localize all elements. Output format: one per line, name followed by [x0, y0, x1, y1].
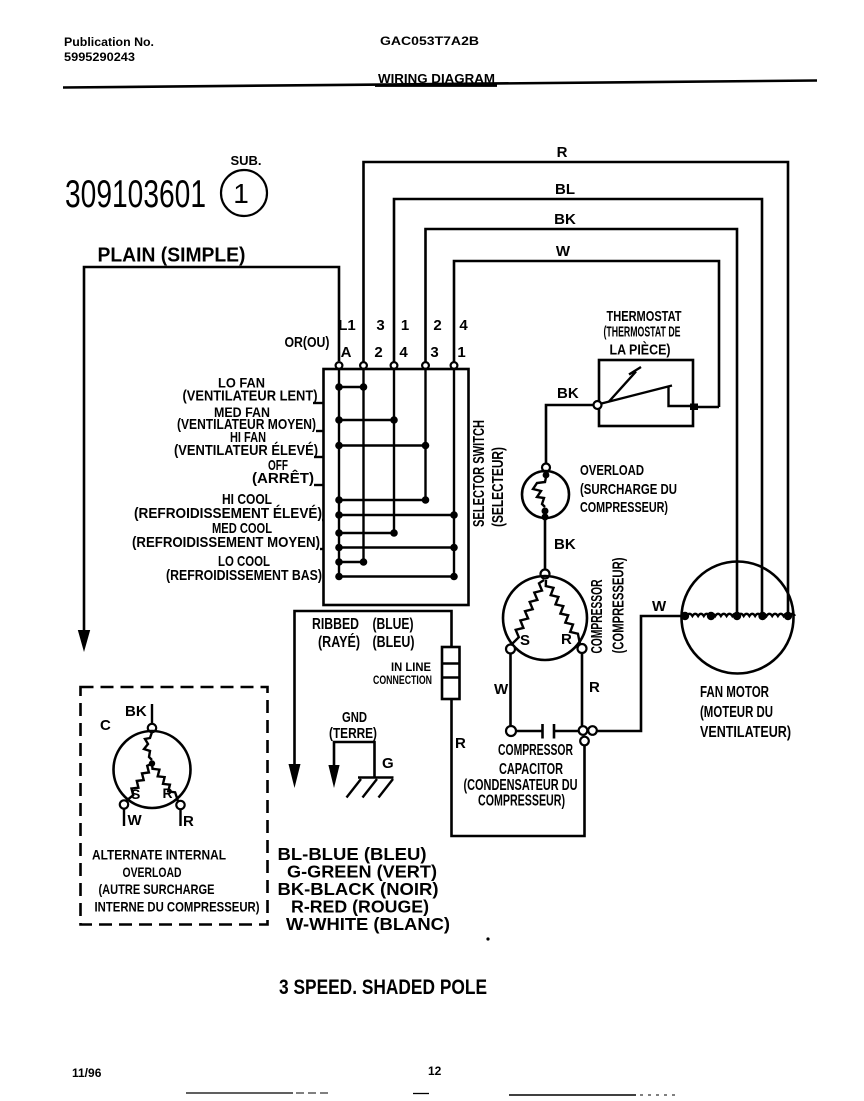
svg-text:W-WHITE (BLANC): W-WHITE (BLANC): [286, 914, 450, 934]
contact row MED FAN A-4: [335, 416, 398, 424]
wire overload to compressor: [544, 519, 547, 569]
line cord arrow GND: [328, 765, 339, 788]
sub revision circle 1: [221, 170, 267, 216]
alt overload center junction dot: [149, 760, 155, 766]
svg-text:OVERLOAD: OVERLOAD: [580, 462, 644, 479]
svg-text:COMPRESSOR: COMPRESSOR: [589, 580, 606, 654]
alt motor terminal W: [120, 800, 128, 808]
svg-text:4: 4: [399, 344, 408, 361]
wire L1 line cord to selector terminal A: [84, 267, 339, 632]
selector switch terminal 4 circle: [391, 362, 398, 369]
alt motor start winding: [126, 764, 152, 802]
wire R capacitor junction to in-line connection: [452, 699, 585, 836]
fan motor winding chord: [681, 614, 795, 616]
svg-text:R: R: [183, 813, 194, 830]
svg-text:(CONDENSATEUR DU: (CONDENSATEUR DU: [464, 777, 578, 794]
svg-text:COMPRESSEUR): COMPRESSEUR): [478, 793, 565, 810]
selector switch column 4: [393, 369, 395, 533]
selector switch column 1: [453, 369, 455, 577]
compressor capacitor label: [464, 742, 578, 810]
alt overload motor circle: [114, 731, 191, 808]
svg-text:ALTERNATE INTERNAL: ALTERNATE INTERNAL: [92, 847, 226, 863]
alt overload top terminal: [148, 724, 156, 732]
contact row HI COOL A-3: [335, 496, 429, 504]
svg-text:R: R: [589, 679, 600, 696]
overload heater zigzag: [533, 477, 546, 507]
svg-text:(BLUE): (BLUE): [373, 616, 414, 633]
compressor start winding: [512, 580, 544, 644]
svg-text:RIBBED: RIBBED: [312, 616, 359, 633]
svg-text:W: W: [128, 812, 143, 829]
svg-text:G: G: [382, 755, 394, 772]
capacitor C1: [516, 724, 579, 739]
legend wire colors: [278, 844, 451, 934]
svg-text:(THERMOSTAT DE: (THERMOSTAT DE: [604, 324, 681, 341]
wire BL from terminal 4 to fan motor: [394, 199, 762, 616]
contact row HI FAN A-3: [335, 442, 429, 450]
svg-text:L1: L1: [338, 317, 356, 334]
in-line connection label: [373, 662, 432, 687]
in-line connection J1: [442, 647, 460, 699]
capacitor junction terminals: [579, 726, 597, 745]
svg-text:(REFROIDISSEMENT BAS): (REFROIDISSEMENT BAS): [166, 567, 322, 584]
svg-text:C: C: [100, 717, 111, 734]
selector switch terminal 1 circle: [451, 362, 458, 369]
svg-text:BL: BL: [555, 181, 575, 198]
svg-text:LA PIÈCE): LA PIÈCE): [610, 342, 671, 359]
overload bottom dots: [542, 508, 549, 521]
thermostat box: [599, 360, 693, 426]
contact row LO COOL A-2: [335, 558, 367, 566]
thermostat left terminal: [594, 401, 602, 409]
wire BK from terminal 3 to fan motor: [426, 229, 738, 616]
compressor label vertical: [589, 558, 628, 654]
svg-text:SELECTOR SWITCH: SELECTOR SWITCH: [471, 420, 488, 527]
svg-text:1: 1: [233, 178, 249, 209]
selector switch terminal A circle: [336, 362, 343, 369]
overload junction dot: [543, 472, 550, 479]
svg-text:CONNECTION: CONNECTION: [373, 675, 432, 687]
ground label GND (TERRE): [329, 709, 377, 742]
svg-text:(AUTRE SURCHARGE: (AUTRE SURCHARGE: [99, 881, 215, 897]
svg-text:4: 4: [459, 317, 468, 334]
svg-text:IN LINE: IN LINE: [391, 662, 431, 674]
svg-text:CAPACITOR: CAPACITOR: [499, 761, 563, 778]
wire R in-line connection to line cord: [295, 611, 452, 766]
svg-text:PLAIN (SIMPLE): PLAIN (SIMPLE): [98, 245, 246, 267]
selector switch column A: [338, 369, 340, 577]
svg-text:COMPRESSOR: COMPRESSOR: [498, 742, 573, 759]
label MED FAN: [177, 404, 324, 433]
capacitor left terminal: [506, 726, 516, 736]
svg-text:BK: BK: [557, 385, 579, 402]
svg-text:OR(OU): OR(OU): [285, 334, 330, 351]
fan motor label: [700, 684, 791, 741]
selector switch box: [324, 369, 469, 605]
svg-text:1: 1: [401, 317, 409, 334]
svg-text:THERMOSTAT: THERMOSTAT: [607, 308, 682, 325]
alternate internal overload label: [92, 847, 260, 915]
wire R from terminal 2 to fan motor: [364, 162, 789, 616]
alternate internal overload dashed box: [81, 687, 268, 925]
svg-text:5995290243: 5995290243: [64, 52, 135, 64]
svg-text:GAC053T7A2B: GAC053T7A2B: [380, 34, 479, 48]
selector switch terminal 2 circle: [360, 362, 367, 369]
alt motor run winding: [152, 764, 178, 802]
label LO FAN: [183, 375, 324, 405]
wire R compressor R to capacitor junction: [581, 653, 584, 726]
compressor run winding: [546, 580, 580, 644]
svg-text:S: S: [131, 786, 140, 802]
alt motor stubs: [124, 809, 181, 826]
alt overload heater zigzag: [144, 732, 152, 760]
svg-text:FAN MOTOR: FAN MOTOR: [700, 684, 769, 701]
selector switch terminal 3 circle: [422, 362, 429, 369]
svg-text:BK: BK: [554, 211, 576, 228]
svg-text:R: R: [163, 785, 173, 801]
alt overload stub BK: [151, 704, 153, 724]
svg-text:(MOTEUR DU: (MOTEUR DU: [700, 704, 773, 721]
svg-text:Publication No.: Publication No.: [64, 37, 154, 49]
wire W from terminal 1 to thermostat: [454, 261, 719, 407]
svg-text:3: 3: [430, 344, 438, 361]
wire W capacitor junction to fan motor: [597, 616, 685, 731]
svg-text:(SURCHARGE DU: (SURCHARGE DU: [580, 481, 677, 498]
thermostat contact blade: [602, 386, 673, 404]
fan motor circle: [682, 562, 794, 674]
selector switch column 2: [362, 369, 364, 562]
svg-text:(REFROIDISSEMENT MOYEN): (REFROIDISSEMENT MOYEN): [132, 534, 320, 551]
contact row LO COOL A-1: [335, 573, 458, 581]
svg-text:R: R: [561, 631, 572, 648]
footer scan artifact lines: [186, 1093, 680, 1095]
svg-text:GND: GND: [342, 709, 367, 726]
label MED COOL: [132, 520, 324, 551]
contact row HI COOL A-1: [335, 511, 458, 519]
wire ground branch: [334, 742, 375, 777]
wire BK thermostat to overload: [546, 405, 594, 463]
svg-text:W: W: [494, 681, 509, 698]
thermostat right terminal: [690, 404, 698, 411]
svg-text:12: 12: [428, 1064, 442, 1078]
svg-text:W: W: [652, 598, 667, 615]
svg-text:SUB.: SUB.: [230, 153, 261, 168]
svg-text:(VENTILATEUR LENT): (VENTILATEUR LENT): [183, 388, 318, 405]
header rule: [63, 81, 817, 88]
svg-text:A: A: [341, 344, 352, 361]
label OFF: [252, 457, 324, 487]
compressor terminal R: [578, 644, 587, 653]
overload OL1 circle: [522, 471, 569, 518]
label SELECTOR SWITCH vertical: [471, 420, 507, 527]
svg-text:BK: BK: [554, 536, 576, 553]
svg-text:(ARRÊT): (ARRÊT): [252, 469, 314, 487]
svg-text:11/96: 11/96: [72, 1066, 102, 1080]
svg-text:(SELECTEUR): (SELECTEUR): [490, 447, 507, 527]
svg-text:VENTILATEUR): VENTILATEUR): [700, 724, 791, 741]
svg-text:(COMPRESSEUR): (COMPRESSEUR): [611, 558, 628, 654]
header publication number: [64, 37, 154, 64]
label LO COOL: [166, 553, 322, 584]
wire W compressor S to capacitor: [509, 654, 512, 727]
label HI COOL: [134, 491, 324, 522]
svg-text:R: R: [455, 735, 466, 752]
selector switch column 3: [424, 369, 426, 500]
svg-text:INTERNE DU COMPRESSEUR): INTERNE DU COMPRESSEUR): [95, 899, 260, 915]
line cord arrow R: [289, 764, 301, 788]
compressor top terminal: [541, 570, 550, 579]
svg-text:(BLEU): (BLEU): [373, 634, 415, 651]
contact row LO FAN A-2: [335, 383, 367, 391]
svg-text:(TERRE): (TERRE): [329, 725, 377, 742]
header title WIRING DIAGRAM: [375, 72, 497, 87]
svg-text:R: R: [557, 144, 568, 161]
svg-text:2: 2: [433, 317, 441, 334]
svg-text:(VENTILATEUR ÉLEVÉ): (VENTILATEUR ÉLEVÉ): [174, 442, 318, 459]
label HI FAN: [174, 429, 324, 459]
scan speck: [486, 937, 489, 940]
svg-text:(RAYÉ): (RAYÉ): [318, 634, 360, 651]
svg-text:W: W: [556, 243, 571, 260]
svg-text:309103601: 309103601: [65, 173, 206, 216]
thermostat label: [604, 308, 682, 359]
svg-text:S: S: [520, 632, 530, 649]
overload label: [580, 462, 677, 516]
contact row MED COOL A-4: [335, 529, 398, 537]
line cord arrow L1: [78, 630, 90, 652]
compressor motor circle: [503, 576, 587, 660]
alt motor terminal R: [176, 801, 184, 809]
svg-text:3: 3: [376, 317, 384, 334]
svg-text:COMPRESSEUR): COMPRESSEUR): [580, 499, 668, 516]
svg-text:2: 2: [374, 344, 382, 361]
wire thermostat right to W riser: [698, 406, 719, 409]
svg-text:OVERLOAD: OVERLOAD: [123, 864, 182, 880]
thermostat moving arm: [609, 367, 641, 402]
overload top terminal: [542, 464, 550, 472]
compressor terminal S: [506, 645, 515, 654]
svg-text:1: 1: [457, 344, 465, 361]
ribbed wire label: [312, 616, 415, 651]
fan motor tap junctions: [681, 612, 792, 620]
contact row MED COOL A-1: [335, 544, 458, 552]
ground symbol G: [347, 778, 394, 798]
thermostat right contact drop: [669, 386, 691, 406]
svg-text:3 SPEED. SHADED POLE: 3 SPEED. SHADED POLE: [279, 976, 487, 999]
svg-text:BK: BK: [125, 703, 147, 720]
